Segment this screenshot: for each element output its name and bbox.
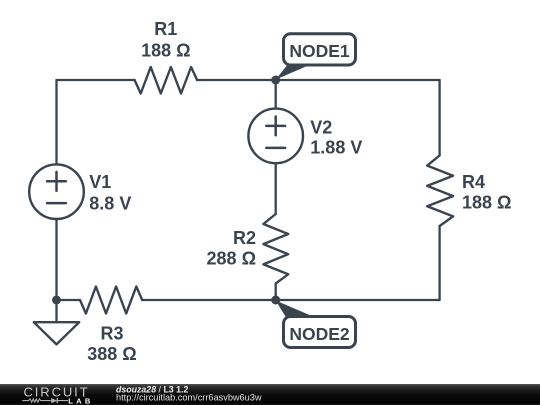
svg-text:http://circuitlab.com/crr6asvb: http://circuitlab.com/crr6asvbw6u3w [116,392,262,402]
svg-text:188 Ω: 188 Ω [462,193,511,213]
wire top-left horizontal [57,79,135,81]
wire R3 to NODE2 [142,299,276,301]
svg-text:R4: R4 [462,172,485,192]
svg-text:388 Ω: 388 Ω [87,344,136,364]
wire ground stub [55,300,57,322]
resistor R4 [427,156,453,227]
wire node to R3 [57,299,81,301]
junction dot ground node [52,296,61,305]
node NODE2 callout pointer [276,301,313,317]
resistor R2 [263,214,288,284]
wire top horizontal to right [197,79,440,81]
wire left vertical upper [55,80,57,164]
svg-text:LAB: LAB [68,396,93,405]
junction dot NODE2 [271,296,280,305]
CircuitLab logo diode triangle [51,398,57,403]
svg-text:R1: R1 [154,19,177,39]
voltage source V1 circle [29,164,84,219]
V1 plus sign [47,172,66,191]
V1 minus sign [47,202,66,205]
svg-text:188 Ω: 188 Ω [141,41,190,61]
V2 plus sign [266,117,285,136]
CircuitLab logo squiggle (resistor+diode) [22,398,68,403]
wire left vertical lower [55,219,57,300]
ground symbol [34,322,79,344]
svg-text:V2: V2 [310,117,332,137]
svg-text:V1: V1 [89,172,111,192]
wire bottom right segment [276,299,440,301]
wire right vertical upper [438,80,440,156]
voltage source V2 circle [248,109,303,164]
wire V2 bottom stub [275,163,277,214]
svg-text:1.88 V: 1.88 V [310,138,362,158]
junction dot NODE1 [271,76,280,85]
resistor R3 [80,287,142,314]
node NODE1 callout box [284,34,356,65]
svg-text:NODE1: NODE1 [289,41,350,61]
svg-text:R2: R2 [233,228,256,248]
node NODE1 callout pointer [276,65,310,80]
svg-text:R3: R3 [100,323,123,343]
svg-text:NODE2: NODE2 [289,324,350,344]
node NODE2 callout box [284,317,356,348]
wire R2 to NODE2 [275,284,277,301]
wire V2 top stub [275,80,277,109]
wire right vertical lower [438,226,440,300]
svg-text:8.8 V: 8.8 V [89,194,131,214]
V2 minus sign [266,147,285,150]
svg-text:288 Ω: 288 Ω [207,248,256,268]
resistor R1 [135,67,198,94]
